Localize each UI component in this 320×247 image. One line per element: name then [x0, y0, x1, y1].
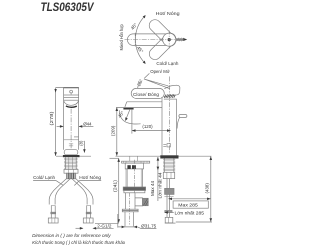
side view: shank nut — [163, 172, 174, 178]
drain: cup — [125, 163, 143, 169]
drain: neck — [125, 169, 127, 187]
dim Max285: box — [173, 201, 208, 208]
hose left outer — [49, 179, 66, 205]
front view: centerline — [70, 109, 72, 149]
drain: flange — [122, 161, 150, 163]
svg-text:(8): (8) — [78, 140, 83, 146]
front view: base escutcheon — [64, 150, 78, 155]
dim Ø31.75 — [117, 214, 119, 228]
svg-text:45°: 45° — [136, 45, 144, 54]
svg-text:(438): (438) — [204, 183, 209, 194]
open-close view: swing arc — [138, 81, 143, 89]
side view: spout underside long line — [116, 106, 162, 108]
svg-text:Open/ Mở: Open/ Mở — [150, 68, 170, 74]
front view: base joint line — [64, 139, 79, 141]
svg-text:(278): (278) — [49, 111, 54, 126]
side view: supply tube — [166, 179, 168, 218]
counter line front view — [56, 155, 91, 157]
dim 2-G1/2 — [76, 227, 83, 229]
dim Max285: line — [168, 198, 211, 200]
top view: pivot center dot — [168, 38, 171, 41]
svg-text:Cold/ Lạnh: Cold/ Lạnh — [33, 175, 55, 180]
svg-text:Close/ Đóng: Close/ Đóng — [133, 92, 160, 97]
side view: spout underside shelf — [127, 101, 162, 103]
drain: centerline — [133, 160, 135, 193]
drain: top stub through counter — [129, 156, 131, 161]
side view: head bottom line — [164, 98, 177, 100]
front view: hose adapter — [66, 173, 75, 179]
dim Ø44: left segment with arrow — [57, 125, 64, 127]
drain: tee body — [124, 193, 126, 209]
side view: column centerline — [168, 77, 170, 153]
top view: hot handle stadium rotated -45 — [147, 31, 178, 62]
drain: washer — [122, 209, 138, 210]
svg-text:(120): (120) — [142, 124, 153, 129]
front view: aerator dark arc — [66, 106, 77, 107]
svg-text:Ø44: Ø44 — [83, 122, 92, 127]
side view: swivel arc 45 — [119, 110, 140, 124]
front view: pin circle — [70, 90, 73, 93]
dim (209): vertical line — [116, 107, 118, 156]
top view: arc arrow bottom — [143, 61, 146, 64]
open-close view: open handle wedge — [144, 79, 170, 89]
hose right end tube — [87, 206, 91, 219]
dim Ø44: right segment with arrow — [79, 125, 94, 127]
drain: nut band — [123, 187, 145, 190]
top view: spout stub hatched — [176, 38, 184, 41]
top view: cold handle stadium rotated +45 — [147, 17, 178, 48]
front view: head under arc — [64, 101, 79, 106]
top view: horizontal centerline — [125, 39, 178, 41]
svg-text:(209): (209) — [110, 125, 115, 136]
hose right inner — [72, 179, 87, 205]
front view: head line — [64, 99, 79, 101]
counter line side view — [116, 155, 212, 157]
front view: threaded shank — [64, 157, 66, 169]
hose right outer — [76, 179, 93, 205]
svg-text:Cold/ Lạnh: Cold/ Lạnh — [156, 61, 178, 66]
side view: bottom fitting — [165, 217, 173, 223]
dim Max44 — [157, 157, 159, 201]
svg-text:Ø31.75: Ø31.75 — [141, 224, 157, 229]
svg-text:Lớn nhất 285: Lớn nhất 285 — [175, 210, 205, 215]
svg-text:Mixed Hỗn hợp: Mixed Hỗn hợp — [118, 24, 124, 50]
top view: horizontal handle stadium (mixed position) — [127, 34, 176, 46]
hose tube junction ticks — [51, 205, 55, 207]
svg-text:Hot/ Nóng: Hot/ Nóng — [79, 175, 101, 180]
side view: tube ring — [165, 210, 172, 212]
side view: drain rod bar — [179, 115, 187, 118]
svg-text:45°: 45° — [117, 110, 125, 119]
side view: head hatch band — [164, 94, 175, 98]
dim (8): tick — [74, 136, 78, 138]
side view: outlet housing slanted side — [125, 102, 127, 107]
svg-text:Lớn nhất 44: Lớn nhất 44 — [157, 172, 162, 199]
hose right nut — [83, 218, 93, 223]
dim (8): ext line with arrow — [83, 141, 85, 153]
svg-text:TLS06305V: TLS06305V — [41, 0, 95, 14]
svg-text:Max 285: Max 285 — [178, 203, 198, 208]
side view: set screw marks — [163, 144, 170, 147]
side view: swivel radius line with arrow — [126, 110, 130, 119]
side view: base flange dark — [160, 155, 178, 158]
side view: tube coupler box — [165, 188, 174, 194]
side view: head outline — [164, 85, 180, 97]
svg-text:Max 44: Max 44 — [150, 180, 155, 196]
top view: vertical centerline — [168, 31, 170, 49]
side view: column — [161, 97, 163, 155]
top view: pivot circle — [163, 33, 176, 46]
drain: tailpipe — [124, 212, 126, 227]
front view: base flange dark — [63, 155, 80, 157]
hose left end tube — [51, 206, 55, 219]
side view: threaded shank — [163, 159, 165, 173]
front view: ring lines — [64, 94, 79, 96]
front view: column — [64, 88, 79, 150]
side view: drain rod curve — [177, 118, 180, 129]
dim (438): vertical — [210, 156, 212, 222]
drain: overflow slots dark — [127, 165, 130, 169]
dim (120): dimension line — [132, 130, 171, 132]
top view: 45deg swing arc — [135, 16, 144, 63]
top view: spout stub arrow — [183, 38, 187, 41]
svg-text:Hot/ Nóng: Hot/ Nóng — [156, 11, 181, 16]
drain: outlet port — [135, 198, 143, 207]
dim (120): extension line left — [131, 110, 133, 134]
front view: dim (278) vertical — [56, 88, 64, 156]
dim (241): vertical — [118, 158, 120, 223]
open-close view: closed handle stadium — [131, 88, 164, 98]
svg-text:(241): (241) — [112, 179, 117, 192]
svg-text:Dimension in ( ) are for refer: Dimension in ( ) are for reference only — [32, 233, 111, 238]
top view: cap center tick — [134, 33, 136, 47]
open-close view: leader to open handle — [144, 73, 149, 78]
svg-text:Kích thước trong ( ) chỉ là kí: Kích thước trong ( ) chỉ là kích thước t… — [32, 239, 125, 245]
hose left inner — [55, 179, 70, 205]
top view: arc arrow top — [143, 15, 146, 18]
front view: set screw marks — [69, 144, 73, 146]
svg-text:2-G1/2: 2-G1/2 — [97, 224, 112, 229]
front view: shank nut — [64, 169, 78, 173]
hose left nut — [48, 218, 58, 223]
side view: aerator dark bar — [123, 108, 133, 110]
